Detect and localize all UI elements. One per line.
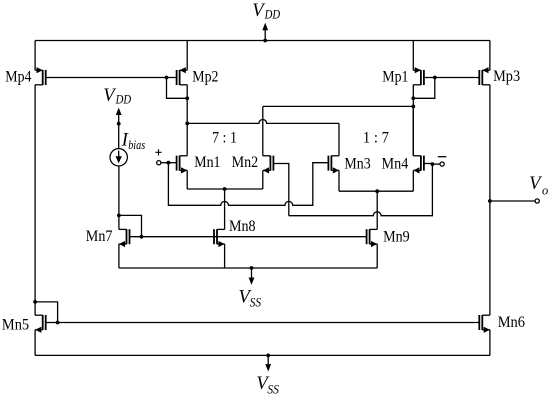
wire minus dot to circle [432, 163, 440, 165]
svg-text:Mp3: Mp3 [493, 68, 520, 85]
label Mn7 [86, 228, 113, 245]
transistor Mp1 [413, 67, 424, 85]
transistor Mp4 [35, 67, 46, 85]
svg-text:DD: DD [264, 7, 280, 21]
svg-text:DD: DD [115, 92, 131, 106]
label Mn4 [382, 155, 409, 172]
transistor Mn6 [479, 315, 490, 333]
node Mp1 gate junction [433, 76, 437, 80]
wire Mn4 drain up [412, 106, 414, 155]
power VSS bottom arrow [265, 355, 271, 371]
power VDD arrow [262, 23, 268, 41]
wire Ibias dot to source [118, 124, 120, 149]
label Mp4 [5, 68, 32, 85]
label Mp1 [382, 68, 408, 85]
wire Mn3 drain up [338, 123, 340, 155]
wire Mp3 source to rail [489, 41, 491, 71]
wire Mp2 gate-drain tie [167, 78, 188, 99]
wire gate bus Mn7-Mn8-Mn9 [130, 236, 367, 238]
node Mp1 drain tie junction [411, 96, 415, 100]
transistor Mn2 [263, 156, 274, 174]
wire Mp1 source to rail [412, 41, 414, 71]
wire Mn4 source down [412, 170, 414, 191]
svg-text:Mn4: Mn4 [382, 155, 409, 172]
wire gate bus Mn5-Mn6 [46, 322, 480, 324]
wire Mn5 source down [34, 330, 36, 356]
label Mn6 [498, 314, 526, 331]
node Mp2 drain tie junction [185, 96, 189, 100]
wire Vo [490, 200, 535, 202]
wire source bus Mn7-Mn9 [119, 267, 377, 269]
terminal plus input [157, 161, 161, 165]
node tail 2 [375, 189, 379, 193]
svg-text:7 : 1: 7 : 1 [212, 130, 237, 147]
terminal minus input [440, 162, 444, 166]
wire Mn2 drain up [262, 106, 264, 155]
transistor Mn3 [328, 156, 339, 174]
transistor Mn1 [177, 156, 188, 174]
node Mn7 tie junction [140, 235, 144, 239]
node Mp2 gate junction [165, 76, 169, 80]
node Ibias top junction [117, 122, 121, 126]
node Vo junction [488, 199, 492, 203]
label Mp2 [192, 68, 218, 85]
label VSS mid [239, 287, 262, 309]
node Mn5 drain junction [33, 300, 37, 304]
svg-text:SS: SS [267, 382, 279, 396]
node plus junction [167, 161, 171, 165]
svg-text:Mn2: Mn2 [232, 154, 259, 171]
node Mn1-Mp2 drain junction [185, 122, 189, 126]
wire tail bus 1 [187, 188, 263, 190]
transistor Mp3 [479, 67, 490, 85]
svg-text:Mn7: Mn7 [86, 228, 113, 245]
wire plus line to Mn3 gate [168, 163, 328, 206]
transistor Mp2 [177, 67, 188, 85]
wire tail1 to Mn8 drain [224, 189, 226, 230]
wire Mp2 drain down [186, 85, 188, 124]
wire plus circle to gate [161, 162, 169, 164]
wire Mn4 gate [424, 163, 433, 165]
svg-text:Mn6: Mn6 [498, 314, 526, 331]
current source Ibias [110, 149, 127, 166]
wire VDD top rail [35, 40, 490, 42]
wire Mp4 drain to Mn5 [34, 85, 36, 316]
label Mn2 [232, 154, 259, 171]
wire Mp4-Mp2 gate line [46, 77, 177, 79]
label VDD top [252, 1, 280, 22]
node VDD tap [263, 39, 267, 43]
label VSS bottom [256, 374, 279, 396]
svg-text:Mp2: Mp2 [192, 68, 218, 85]
wire Mn2 gate to minus line [273, 164, 288, 216]
label Mn9 [383, 228, 410, 245]
transistor Mn9 [367, 229, 378, 247]
wire Mp1-Mp3 gate line [424, 77, 479, 79]
svg-text:1 : 7: 1 : 7 [363, 129, 389, 146]
node Mn5 tie junction [56, 321, 60, 325]
power VDD left arrow [116, 108, 122, 124]
wire Mp1 gate-drain tie [413, 78, 435, 99]
label VDD left [103, 86, 131, 106]
label Mp3 [493, 68, 520, 85]
power VSS mid arrow [249, 268, 255, 285]
terminal Vo [535, 199, 539, 203]
label plus [155, 149, 161, 155]
transistor Mn8 [214, 229, 225, 247]
wire Mn9 source down [376, 244, 378, 268]
node tail 1 [223, 187, 227, 191]
label Mn1 [194, 154, 220, 171]
node VSS mid tap [250, 266, 254, 270]
svg-text:Mn1: Mn1 [194, 154, 220, 171]
label ratio 7:1 [212, 130, 237, 147]
wire Mn2 source down [262, 170, 264, 189]
wire Mp3 drain down to Mn6 [489, 85, 491, 316]
label Mn8 [229, 218, 256, 235]
svg-text:bias: bias [128, 138, 145, 152]
wire Mn7 source down [118, 244, 120, 268]
wire Mn7 drain [118, 215, 120, 229]
wire upper cross line Mn2-Mp1 [263, 105, 414, 107]
label minus bar [438, 156, 447, 158]
svg-text:Mp1: Mp1 [382, 68, 408, 85]
node VSS bottom tap [266, 354, 270, 358]
wire Mn8 source down [224, 244, 226, 268]
wire minus line [289, 164, 433, 216]
svg-text:Mn8: Mn8 [229, 218, 256, 235]
label Mn3 [344, 155, 371, 172]
wire Mn5 gate-drain tie [35, 302, 58, 323]
wire Mn7 gate-drain tie [119, 215, 142, 236]
node Mn7 drain junction [117, 214, 121, 218]
label Vo [529, 174, 548, 197]
transistor Mn4 [413, 156, 424, 174]
wire Mn1 gate [168, 162, 176, 164]
wire Mn6 source down [489, 330, 491, 356]
wire Mn1 drain up [186, 123, 188, 155]
wire bottom rail [35, 354, 490, 356]
wire Mn1 source down [186, 170, 188, 189]
node minus junction [431, 162, 435, 166]
svg-text:Mn3: Mn3 [344, 155, 371, 172]
wire Mp1 drain down to Mn4 [412, 85, 414, 156]
wire Mn3 source down [338, 170, 340, 191]
wire cross line Mp2-Mn3 with hop [187, 120, 339, 124]
label Mn5 [2, 317, 30, 334]
wire Ibias to Mn7 drain [118, 166, 120, 215]
svg-text:o: o [542, 183, 548, 197]
svg-text:Mn9: Mn9 [383, 228, 410, 245]
svg-text:Mp4: Mp4 [5, 68, 32, 85]
wire tail bus 2 [339, 190, 413, 192]
label Ibias [121, 130, 146, 152]
wire tail2 to Mn9 drain [376, 191, 378, 229]
transistor Mn5 [35, 315, 46, 333]
label ratio 1:7 [363, 129, 389, 146]
transistor Mn7 [119, 229, 130, 247]
wire Mp4 source from top rail [34, 41, 36, 71]
svg-text:SS: SS [250, 296, 262, 310]
node Mp1 drain - Mn2 junction [411, 105, 415, 109]
svg-text:Mn5: Mn5 [2, 317, 30, 334]
wire Mp2 source to rail [186, 41, 188, 71]
